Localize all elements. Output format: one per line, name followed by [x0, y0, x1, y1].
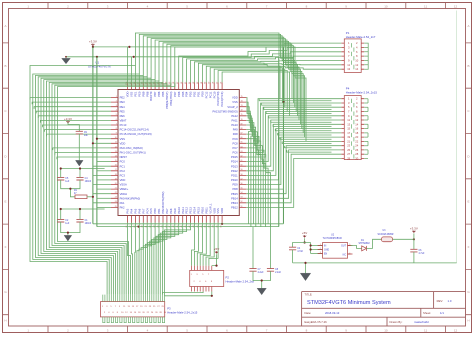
wire VSS vertical right [278, 57, 280, 227]
wire right pin VCAP_2 down [246, 107, 254, 224]
svg-text:PE6: PE6 [120, 114, 126, 118]
svg-text:57: 57 [241, 178, 243, 180]
svg-text:75: 75 [241, 96, 243, 98]
svg-text:PA8: PA8 [233, 132, 238, 136]
svg-text:PC11: PC11 [208, 91, 212, 98]
svg-text:PE14: PE14 [193, 207, 197, 214]
svg-text:PC15-OSC32_OUT(PC15): PC15-OSC32_OUT(PC15) [120, 132, 152, 136]
svg-text:VCAP_1: VCAP_1 [208, 203, 212, 214]
wire left pin PE5 [36, 111, 111, 113]
svg-text:PE8: PE8 [169, 208, 173, 214]
svg-text:PB9: PB9 [141, 91, 145, 97]
resistor R1 [75, 195, 87, 199]
svg-text:10: 10 [355, 59, 358, 63]
svg-text:PB10: PB10 [200, 206, 204, 213]
svg-text:IN: IN [324, 245, 327, 247]
wire right pin PB12 to P4 row 15 [246, 159, 341, 208]
wire wrap PB7 [44, 80, 155, 295]
svg-text:PB15: PB15 [231, 192, 238, 196]
wire left pin PC13 [42, 125, 111, 127]
wire top to P1 row 7 [202, 65, 341, 83]
wire bottom pin VCAP_1 to P2 [203, 223, 210, 266]
wire C7 riser [252, 227, 254, 269]
wire VDD rail bottom [93, 223, 284, 225]
svg-text:VCAP_2: VCAP_2 [227, 105, 238, 109]
wire bottom pin PA3 to P3 [128, 223, 131, 295]
svg-text:B: B [4, 64, 6, 68]
svg-text:Header-Male 2.54_2x8: Header-Male 2.54_2x8 [226, 280, 255, 284]
wire top bundle PC11 [210, 68, 282, 103]
svg-text:PB3(JTDO): PB3(JTDO) [169, 92, 173, 106]
svg-text:1: 1 [116, 96, 117, 98]
svg-text:VDD: VDD [120, 178, 126, 182]
svg-text:Header-Male-2.54_2x15: Header-Male-2.54_2x15 [346, 90, 378, 94]
svg-text:VREF+: VREF+ [120, 187, 129, 191]
svg-text:A: A [4, 24, 6, 28]
svg-text:10: 10 [355, 114, 358, 118]
wire band interleave 3 [264, 107, 332, 109]
wire top bundle drop 1 [135, 33, 292, 99]
svg-text:68: 68 [241, 128, 243, 130]
wire band interleave 1 [259, 99, 331, 101]
svg-text:EN: EN [324, 253, 328, 255]
svg-text:25: 25 [347, 148, 350, 152]
ground (caps pair2) [64, 235, 72, 241]
wire top bundle drop 7 [159, 41, 300, 124]
wire band interleave 5 [268, 116, 331, 118]
svg-text:27: 27 [347, 152, 350, 156]
wire right pin PB15 to P4 row 12 [246, 146, 341, 194]
svg-text:66: 66 [241, 137, 243, 139]
svg-text:10: 10 [384, 4, 388, 8]
wire band interleave 8 [275, 129, 331, 131]
wire wrap PB8 [38, 77, 147, 295]
wire left pin VBAT [40, 120, 111, 122]
svg-text:PD3: PD3 [189, 91, 193, 97]
svg-text:62: 62 [241, 155, 243, 157]
svg-text:Drawn By:: Drawn By: [390, 320, 403, 324]
svg-text:3: 3 [320, 252, 321, 254]
svg-text:61: 61 [241, 160, 243, 162]
svg-text:PC3: PC3 [120, 174, 126, 178]
svg-text:VSS: VSS [216, 208, 220, 214]
svg-text:E: E [4, 200, 6, 204]
svg-text:H: H [4, 319, 6, 323]
wire bottom pin PC5 to P3 [143, 223, 151, 295]
svg-text:PC14-OSC32_IN(PC14): PC14-OSC32_IN(PC14) [120, 128, 149, 132]
wire left pin VREF+ short [97, 188, 111, 190]
svg-text:PC9: PC9 [232, 137, 238, 141]
svg-text:16: 16 [115, 165, 117, 167]
wire wrap PB6 [47, 81, 160, 295]
svg-text:STPS0802: STPS0802 [359, 243, 371, 245]
wire bottom pin PE9 to P3 [156, 223, 175, 295]
wire top bundle drop 10 [171, 46, 305, 138]
svg-text:63: 63 [241, 151, 243, 153]
wire band interleave 2 [262, 103, 332, 105]
svg-text:masterhafid: masterhafid [414, 320, 429, 324]
svg-text:PC12: PC12 [204, 91, 208, 98]
wire VDD vertical left [92, 47, 94, 224]
wire top bundle drop 8 [163, 43, 302, 129]
connector P1 header 2x7 [344, 39, 361, 73]
svg-text:VDD: VDD [212, 208, 216, 214]
wire left pin PC0 short [97, 161, 111, 163]
wire bottom pin PB11 to P2 [200, 223, 206, 266]
svg-text:VSS: VSS [232, 100, 238, 104]
svg-text:PC2: PC2 [120, 169, 126, 173]
wire top bundle drop 5 [151, 39, 298, 116]
junction dot gnd rail [304, 262, 306, 264]
svg-text:PD0: PD0 [200, 91, 204, 97]
svg-text:12: 12 [454, 4, 458, 8]
diode D1 [362, 246, 367, 251]
svg-text:PB14: PB14 [231, 196, 238, 200]
svg-text:70: 70 [241, 119, 243, 121]
wire left pin PC3 short [93, 174, 111, 176]
svg-text:23: 23 [347, 144, 350, 148]
wire +3.3V to C9 [68, 122, 79, 131]
svg-text:PH1-OSC_OUT(PH1): PH1-OSC_OUT(PH1) [120, 151, 146, 155]
svg-text:PB7: PB7 [153, 91, 157, 97]
svg-text:53: 53 [241, 197, 243, 199]
svg-text:PC13: PC13 [120, 123, 127, 127]
svg-text:PA4: PA4 [130, 208, 134, 213]
wire left pin PH1-OSC_OUT(PH1) [55, 153, 111, 155]
svg-text:11: 11 [347, 63, 350, 67]
svg-text:PB11: PB11 [204, 207, 208, 214]
svg-text:VDD: VDD [232, 96, 238, 100]
wire top bundle drop 4 [147, 37, 296, 111]
wire C7 C8 bottom [253, 271, 271, 280]
connector P2 header (bottom right) [190, 270, 224, 286]
wire VSS rail bottom [97, 226, 279, 228]
capacitor C8 [267, 269, 274, 272]
wire caps pair1 bottom [61, 180, 80, 189]
svg-text:67: 67 [241, 133, 243, 135]
svg-text:51: 51 [241, 206, 243, 208]
wire bottom pin PB10 to P2 [197, 223, 202, 266]
svg-text:PD14: PD14 [231, 160, 238, 164]
svg-text:PA3: PA3 [126, 208, 130, 213]
wire top bundle PA15(JTDI) [218, 71, 287, 112]
junction dot P2 bottom [211, 295, 213, 297]
svg-text:20: 20 [355, 135, 358, 139]
svg-text:H: H [467, 319, 469, 323]
svg-text:56: 56 [241, 183, 243, 185]
svg-text:1uF: 1uF [65, 181, 70, 183]
capacitor C4 (input) [289, 247, 296, 250]
svg-text:NC: NC [343, 254, 347, 256]
svg-text:+3.3V: +3.3V [89, 40, 97, 44]
wire left pin PE6 [38, 116, 111, 118]
regulator U2 body [323, 243, 348, 259]
wire bottom pin PA4 to P3 [131, 223, 132, 295]
wire bottom pin PE11 to P3 [160, 223, 182, 295]
wire wrap PE0 [33, 74, 140, 295]
svg-text:PE12: PE12 [185, 207, 189, 214]
svg-text:1.0: 1.0 [448, 299, 452, 303]
ground (regulator) [300, 273, 310, 280]
svg-text:17: 17 [347, 131, 350, 135]
svg-text:Date:: Date: [305, 311, 312, 315]
wire left pin VDDA short [93, 193, 111, 195]
svg-text:60: 60 [241, 165, 243, 167]
wire caps pair2 top [61, 209, 105, 219]
wire VDD top pin [127, 47, 129, 83]
svg-text:15: 15 [115, 160, 117, 162]
U1 pin numbers [115, 82, 243, 228]
svg-text:PE10: PE10 [177, 207, 181, 214]
junction dots top rails [92, 46, 94, 48]
wire right pin PC8 to P4 row 1 [246, 99, 341, 144]
wire wrap PB3(JTDO) [55, 83, 171, 295]
svg-text:PE15: PE15 [197, 207, 201, 214]
svg-text:4: 4 [116, 110, 117, 112]
svg-text:72: 72 [241, 110, 243, 112]
svg-text:10: 10 [384, 329, 388, 333]
svg-text:PB4(NJTRST): PB4(NJTRST) [165, 91, 169, 108]
svg-text:28: 28 [355, 152, 358, 156]
U1 pin stubs [111, 83, 246, 223]
wire left pin NRST [57, 157, 111, 159]
wire left pin PC1 short [93, 165, 111, 167]
wire left pin VDD short [97, 179, 111, 181]
wire right margin net [456, 11, 458, 263]
junction dot reg input [304, 241, 306, 243]
wire left pin VSS to rail [97, 138, 111, 140]
capacitor C1 [76, 219, 83, 222]
connector P4 header 2x15 [344, 96, 361, 160]
wire bottom pin PE12 to P3 [162, 223, 186, 295]
wire bottom pin VDD to P2 [206, 223, 214, 266]
svg-text:PH0-OSC_IN(PH0): PH0-OSC_IN(PH0) [120, 146, 143, 150]
svg-text:Header-Male-2.54_2x15: Header-Male-2.54_2x15 [167, 311, 198, 315]
svg-text:STM32F407VGT6: STM32F407VGT6 [88, 64, 111, 68]
wire top bundle PA14(JTCK) [222, 72, 290, 116]
svg-text:74: 74 [241, 101, 243, 103]
wire right pin VDD down [246, 98, 250, 224]
wire VDD rail top [93, 46, 284, 48]
svg-text:2.2uF: 2.2uF [275, 272, 281, 274]
svg-text:PC8: PC8 [232, 141, 238, 145]
svg-text:13: 13 [347, 122, 350, 126]
wire right pin PB14 to P4 row 13 [246, 150, 341, 198]
wire bottom pin PB0 to P3 [145, 223, 155, 295]
wire U3 out [393, 238, 414, 240]
P4 right-side wires [364, 99, 368, 159]
wire C4 bottom [292, 250, 294, 263]
svg-text:PC7: PC7 [232, 146, 238, 150]
wire left pin PH0-OSC_IN(PH0) [53, 148, 111, 150]
wire band interleave 9 [278, 133, 332, 135]
wire band interleave 13 [287, 150, 332, 152]
svg-text:VDD: VDD [126, 92, 130, 98]
svg-text:PA2: PA2 [120, 206, 125, 210]
svg-text:PD15: PD15 [231, 155, 238, 159]
svg-text:PD6: PD6 [177, 91, 181, 97]
svg-text:PD2: PD2 [193, 91, 197, 97]
wire right pin PD12 to P4 row 7 [246, 124, 341, 171]
svg-text:+3.3V: +3.3V [410, 226, 418, 230]
svg-text:PA9: PA9 [233, 128, 238, 132]
svg-text:PB13: PB13 [231, 201, 238, 205]
svg-text:6: 6 [116, 119, 117, 121]
wire right pin PD11 to P4 row 8 [246, 129, 341, 176]
svg-text:24: 24 [115, 201, 117, 203]
wire top bundle drop 11 [175, 47, 306, 141]
svg-text:14: 14 [355, 67, 358, 71]
svg-text:13: 13 [115, 151, 117, 153]
svg-text:54: 54 [241, 192, 243, 194]
wire VSS vertical left [96, 57, 98, 227]
svg-text:+5V: +5V [214, 247, 219, 251]
svg-text:PA0-WKUP(PA0): PA0-WKUP(PA0) [120, 196, 141, 200]
svg-text:PD9: PD9 [232, 183, 238, 187]
svg-text:2018-09-13: 2018-09-13 [325, 311, 340, 315]
svg-text:PB6: PB6 [157, 91, 161, 97]
U1 pin names [120, 91, 239, 214]
wire VSS rail top [66, 56, 279, 58]
wire bottom pin PE7 to P3 [152, 223, 167, 295]
capacitor C9 [76, 131, 83, 134]
wire left pin VSSA short [93, 184, 111, 186]
svg-text:1uF: 1uF [65, 223, 70, 225]
wire top bundle PC10 [214, 69, 285, 107]
wire right pin PA13(JTMS-SWDIO) down [246, 111, 256, 226]
P1 right-side chained wires [364, 43, 368, 69]
svg-text:VSSA: VSSA [120, 183, 127, 187]
svg-text:1uF: 1uF [84, 135, 89, 137]
wire band interleave 4 [266, 112, 331, 114]
capacitor C2 [57, 219, 64, 222]
junction dots U2 feed [310, 244, 312, 246]
wire right pin PD9 to P4 row 10 [246, 137, 341, 184]
wire left pin PC15-OSC32_OUT(PC15) [47, 134, 111, 136]
svg-text:2: 2 [116, 101, 117, 103]
capacitor C4a [76, 177, 83, 180]
svg-text:PA13(JTMS-SWDIO): PA13(JTMS-SWDIO) [213, 109, 238, 113]
svg-text:PA7: PA7 [141, 208, 145, 213]
svg-text:PD11: PD11 [231, 174, 238, 178]
wire top bundle drop 3 [143, 36, 294, 107]
wire +5V input [304, 238, 306, 242]
wire wrap PE1 [30, 66, 135, 295]
svg-text:11: 11 [424, 4, 427, 8]
svg-text:64: 64 [241, 146, 243, 148]
svg-text:PE2: PE2 [120, 96, 126, 100]
wire bottom pin PE8 to P3 [154, 223, 171, 295]
wire right pin PD13 to P4 row 6 [246, 120, 341, 166]
wire OUT to D1 [351, 246, 362, 249]
wire bottom pin PB1 to P3 [148, 223, 160, 295]
junction dot mid right [282, 101, 284, 103]
svg-text:24: 24 [355, 144, 358, 148]
wire wrap PB5 [49, 82, 163, 294]
wire top bundle drop 6 [155, 40, 299, 120]
wire band interleave 6 [271, 120, 332, 122]
svg-text:8: 8 [116, 128, 117, 130]
svg-text:100nF: 100nF [85, 181, 92, 183]
wire bottom pin PA5 to P3 [134, 223, 137, 295]
svg-text:4.7uF: 4.7uF [419, 253, 425, 255]
svg-text:PA11: PA11 [232, 119, 239, 123]
junction dots bottom rails [138, 226, 140, 228]
svg-text:2.2uF: 2.2uF [258, 272, 264, 274]
wire U2 OUT stub [348, 245, 351, 247]
svg-text:PC10: PC10 [212, 91, 216, 98]
svg-text:16: 16 [355, 127, 358, 131]
svg-text:2: 2 [320, 248, 321, 250]
svg-text:PD7: PD7 [173, 91, 177, 97]
wire left pin PA0-WKUP(PA0) short [97, 197, 111, 199]
svg-text:19: 19 [115, 178, 117, 180]
wire bottom pin PB2-BOOT1(PB2) to P3 [150, 223, 163, 295]
svg-text:PA10: PA10 [231, 123, 238, 127]
wire right pin PD15 to P4 row 4 [246, 112, 341, 158]
wire right pin PB13 to P4 row 14 [246, 154, 341, 203]
wire left pin PA1 short [93, 202, 111, 204]
svg-text:14: 14 [355, 122, 358, 126]
wire top to P1 row 1 [179, 43, 342, 82]
svg-text:17: 17 [115, 169, 117, 171]
svg-text:PA5: PA5 [133, 208, 137, 213]
wire right pin PD8 to P4 row 11 [246, 141, 341, 189]
svg-text:69: 69 [241, 123, 243, 125]
wire +5V to P2 [212, 254, 217, 265]
wire right pin PC6 to P4 row 3 [246, 107, 341, 152]
svg-text:PB5: PB5 [161, 91, 165, 97]
svg-text:PD13: PD13 [231, 164, 238, 168]
wire P3 pin30 to P2 [165, 292, 212, 296]
wire band interleave 7 [273, 124, 332, 126]
svg-text:25: 25 [115, 206, 117, 208]
wire bottom pin PE10 to P3 [158, 223, 179, 295]
wire bottom pin PA7 to P3 [139, 223, 143, 295]
wire top to P1 row 6 [198, 63, 341, 82]
svg-text:TLV70333PCBVR: TLV70333PCBVR [323, 237, 342, 240]
junction dot P2 +5V [215, 265, 217, 267]
svg-text:VDD: VDD [220, 208, 224, 214]
svg-text:11: 11 [347, 118, 350, 122]
svg-text:12: 12 [454, 329, 458, 333]
svg-text:TITLE:: TITLE: [305, 292, 313, 296]
connector P3 header 2x15 (bottom) [101, 302, 165, 317]
wire top bundle drop 9 [167, 44, 303, 133]
svg-text:29: 29 [347, 157, 350, 161]
svg-text:PD5: PD5 [181, 91, 185, 97]
wire to C6 [413, 239, 415, 249]
svg-text:5: 5 [116, 114, 117, 116]
svg-text:55: 55 [241, 188, 243, 190]
svg-text:13: 13 [347, 67, 350, 71]
wire VDD vertical right [282, 47, 284, 224]
svg-text:PD12: PD12 [231, 169, 238, 173]
wire top bundle drop 2 [139, 34, 293, 103]
wire top to P1 row 3 [187, 52, 342, 83]
wire C6 bottom [413, 252, 415, 263]
svg-text:PC6: PC6 [232, 151, 238, 155]
svg-text:PC4: PC4 [145, 208, 149, 214]
wire right pin PA8 down [246, 134, 268, 224]
wire wrap PB9 [36, 75, 144, 294]
wire left pin PC2 short [97, 170, 111, 172]
svg-text:VDD: VDD [120, 141, 126, 145]
wire right pin PA9 down [246, 130, 265, 227]
svg-text:21: 21 [347, 139, 350, 143]
svg-text:7: 7 [116, 123, 117, 125]
svg-text:18: 18 [355, 131, 358, 135]
